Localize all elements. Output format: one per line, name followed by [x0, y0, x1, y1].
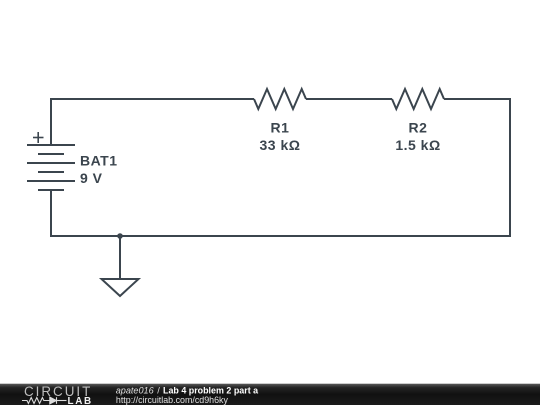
wire top rail segment BAT1 to R1: [50, 98, 254, 100]
wire top rail segment R2 to top-right corner: [444, 98, 510, 100]
resistor R2: [392, 89, 444, 109]
footer logo wire-and-resistor squiggle: [22, 398, 50, 404]
svg-text:BAT1: BAT1: [80, 153, 118, 169]
wire left vertical (top rail corner down to BAT1 positive plate): [50, 98, 52, 145]
footer logo diode symbol: [50, 397, 67, 404]
svg-text:R2: R2: [409, 120, 428, 136]
svg-text:9 V: 9 V: [80, 170, 103, 186]
wire right vertical (top-right corner to bottom rail): [509, 98, 511, 237]
junction node (ground tap on bottom rail): [117, 233, 123, 239]
wire battery negative lead (BAT1 bottom plate to bottom rail): [50, 190, 52, 236]
battery BAT1 plus terminal marker: [33, 132, 44, 143]
battery BAT1: [27, 145, 75, 190]
svg-text:R1: R1: [271, 120, 290, 136]
wire top rail segment R1 to R2: [306, 98, 392, 100]
svg-text:http://circuitlab.com/cd9h6ky: http://circuitlab.com/cd9h6ky: [116, 395, 228, 405]
resistor R1: [254, 89, 306, 109]
footer watermark bar: [0, 384, 540, 405]
ground symbol: [102, 279, 139, 296]
svg-text:1.5 kΩ: 1.5 kΩ: [395, 137, 440, 153]
wire ground stem: [119, 236, 121, 279]
svg-text:33 kΩ: 33 kΩ: [260, 137, 301, 153]
svg-text:LAB: LAB: [68, 396, 92, 405]
wire bottom rail: [50, 235, 510, 237]
